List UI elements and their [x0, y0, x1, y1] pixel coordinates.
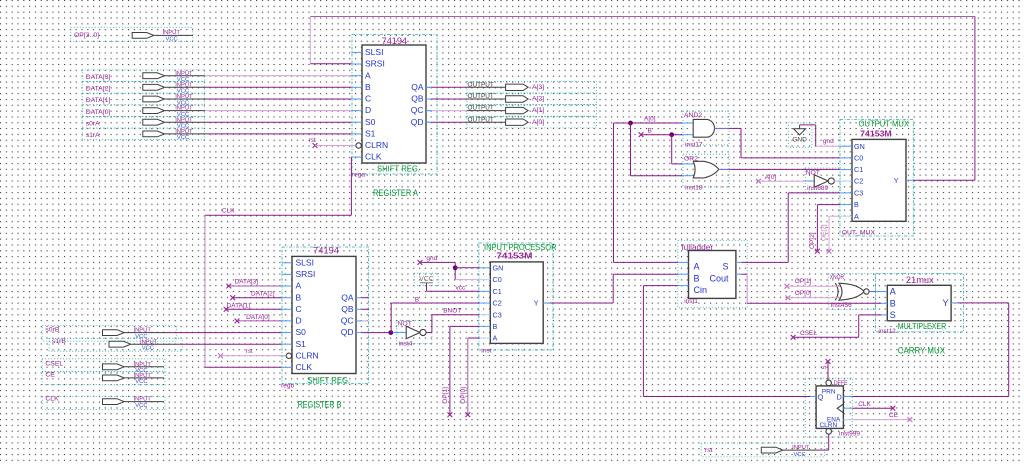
svg-text:Cin: Cin [694, 285, 708, 295]
svg-text:INPUT: INPUT [134, 362, 152, 368]
or-gate OR2 inst18 [683, 154, 729, 187]
svg-text:s1rA: s1rA [86, 132, 100, 139]
register A 74194 shift register [352, 35, 437, 175]
svg-text:INPUT: INPUT [792, 445, 810, 451]
wire feedback right vertical [974, 17, 976, 181]
wires register A outputs [426, 86, 432, 88]
svg-text:OP[0]: OP[0] [460, 387, 467, 404]
svg-text:CE: CE [45, 372, 55, 379]
net A[0] to AND2/OR2/fulladder [613, 123, 615, 262]
svg-text:s0rA: s0rA [86, 120, 100, 127]
svg-text:OUT_MUX: OUT_MUX [842, 229, 876, 236]
and-gate AND2 inst17 [683, 111, 729, 145]
svg-text:VCC: VCC [177, 135, 189, 141]
svg-text:REGISTER B: REGISTER B [298, 400, 342, 410]
svg-text:DATA[1]: DATA[1] [86, 97, 111, 104]
svg-text:S: S [890, 310, 896, 320]
svg-text:vcc: vcc [456, 285, 467, 292]
svg-text:DATA[1]: DATA[1] [227, 302, 251, 309]
svg-text:SRSI: SRSI [296, 269, 316, 279]
svg-text:inst: inst [481, 347, 491, 354]
svg-text:VCC: VCC [142, 346, 154, 352]
power symbol VCC [414, 273, 438, 285]
svg-text:CE: CE [889, 412, 899, 419]
input pin CE [42, 372, 165, 385]
svg-text:A: A [365, 70, 371, 80]
svg-text:VCC: VCC [166, 37, 178, 43]
svg-text:DATA[0]: DATA[0] [86, 109, 111, 116]
svg-text:NOT: NOT [806, 169, 820, 176]
net gnd to output-mux GN [800, 124, 816, 126]
wire input-processor Y to fulladder B [550, 302, 614, 304]
not-gate NOT inst4 [397, 320, 432, 343]
net CE dangle at DFFE [843, 419, 852, 421]
svg-text:INPUT: INPUT [175, 117, 193, 123]
svg-text:QC: QC [341, 316, 354, 326]
svg-text:MULTIPLEXER: MULTIPLEXER [898, 321, 946, 331]
svg-text:OP[3..0]: OP[3..0] [74, 32, 99, 39]
svg-text:C: C [365, 94, 371, 104]
svg-text:S1: S1 [296, 339, 307, 349]
svg-text:B: B [296, 292, 302, 302]
svg-text:Q: Q [818, 392, 824, 401]
svg-text:QD: QD [411, 117, 424, 127]
svg-text:CLRN: CLRN [819, 422, 837, 429]
svg-text:B: B [694, 273, 700, 283]
wire fulladder S up [742, 261, 789, 263]
svg-text:gnd: gnd [823, 138, 834, 145]
svg-text:XNOR: XNOR [830, 274, 844, 281]
svg-text:A[1]: A[1] [532, 107, 544, 114]
svg-text:A: A [296, 281, 302, 291]
wire OR2 output to output-mux C1 [719, 168, 730, 170]
svg-text:C3: C3 [493, 310, 502, 319]
net OP[1] to input-processor B [450, 325, 480, 327]
svg-text:CLRN: CLRN [365, 140, 388, 150]
svg-text:CLK: CLK [858, 401, 871, 408]
net CLK dangle at DFFE [843, 407, 852, 409]
svg-text:rega: rega [352, 171, 365, 178]
svg-text:DATA[2]: DATA[2] [251, 290, 275, 297]
wire A-net into fulladder A [614, 261, 678, 263]
flip-flop DFFE inst999 [805, 378, 852, 437]
svg-text:GND: GND [792, 137, 807, 144]
svg-text:C: C [296, 304, 302, 314]
svg-text:CSEL: CSEL [800, 330, 817, 337]
svg-text:Y: Y [942, 298, 948, 308]
svg-text:BNOT: BNOT [443, 308, 461, 315]
svg-text:OP[1]: OP[1] [442, 387, 449, 404]
svg-text:OUTPUT MUX: OUTPUT MUX [859, 119, 910, 129]
wire fulladder S to output-mux C3 [787, 193, 789, 263]
svg-text:21mux: 21mux [906, 275, 934, 285]
svg-text:AND2: AND2 [684, 112, 702, 119]
input pin CSEL [42, 359, 165, 372]
svg-text:S: S [722, 262, 728, 272]
svg-text:QB: QB [341, 304, 354, 314]
svg-text:GN: GN [493, 263, 504, 272]
not-gate NOT inst689 [805, 168, 840, 192]
svg-text:rst: rst [705, 447, 713, 454]
wire feedback top [310, 16, 975, 18]
svg-text:INPUT: INPUT [163, 30, 181, 36]
svg-text:VCC: VCC [135, 403, 147, 409]
svg-text:DATA[2]: DATA[2] [86, 86, 111, 93]
svg-text:INPUT: INPUT [134, 397, 152, 403]
svg-text:Y: Y [534, 299, 539, 308]
net vcc to input-processor C1 [426, 283, 428, 292]
svg-text:inst456: inst456 [831, 302, 852, 309]
svg-text:REGISTER A: REGISTER A [373, 188, 418, 198]
output pins A[3..0] [467, 81, 596, 93]
wire fulladder Cout to carry-mux B [742, 273, 748, 275]
svg-text:INPUT: INPUT [134, 328, 152, 334]
svg-text:SLSI: SLSI [365, 47, 383, 57]
input pins DATA[3..0] s0rA s1rA [82, 70, 204, 140]
wire DFFE Q to fulladder Cin [810, 396, 816, 398]
svg-text:inst999: inst999 [839, 431, 860, 438]
svg-text:CSEL: CSEL [45, 361, 63, 368]
multiplexer 21mux inst12 [875, 274, 963, 332]
xnor-gate XNOR inst456 [828, 274, 875, 310]
svg-text:QC: QC [411, 105, 424, 115]
svg-text:C1: C1 [493, 287, 502, 296]
svg-text:gnd: gnd [426, 255, 437, 262]
multiplexer INPUT PROCESSOR 74153M [479, 243, 553, 350]
svg-text:C3: C3 [854, 189, 863, 198]
svg-text:CLK: CLK [296, 362, 313, 372]
svg-text:A[0]: A[0] [765, 174, 777, 181]
net OP[0] to input-processor A [468, 337, 480, 339]
svg-text:Cout: Cout [709, 273, 729, 283]
svg-text:DATA[3]: DATA[3] [235, 279, 259, 286]
svg-text:DATA[3]: DATA[3] [86, 74, 111, 81]
svg-text:B: B [493, 322, 498, 331]
svg-text:B: B [890, 298, 896, 308]
svg-text:SLSI: SLSI [296, 257, 314, 267]
svg-text:B: B [854, 200, 859, 209]
svg-text:CLK: CLK [45, 395, 59, 402]
svg-text:SRSI: SRSI [365, 59, 385, 69]
svg-text:A[3]: A[3] [532, 84, 544, 91]
svg-text:INPUT: INPUT [175, 94, 193, 100]
svg-text:DATA[0]: DATA[0] [246, 314, 270, 321]
svg-text:QD: QD [341, 327, 354, 337]
svg-text:inst1: inst1 [684, 298, 698, 305]
svg-text:SHIFT REG.: SHIFT REG. [377, 163, 420, 173]
svg-text:QA: QA [341, 292, 354, 302]
svg-text:C2: C2 [854, 177, 863, 186]
svg-text:C1: C1 [854, 165, 863, 174]
wire carry-mux Y to DFFE D [957, 302, 1008, 304]
svg-text:CLRN: CLRN [296, 350, 319, 360]
multiplexer OUTPUT MUX 74153M [840, 120, 913, 237]
svg-text:QB: QB [411, 94, 424, 104]
svg-text:74153M: 74153M [496, 252, 532, 261]
svg-text:VCC: VCC [135, 379, 147, 385]
svg-text:D: D [296, 316, 302, 326]
fulladder inst1 [678, 241, 747, 308]
svg-text:regb: regb [281, 382, 294, 389]
svg-text:74194: 74194 [313, 246, 339, 256]
svg-text:INPUT: INPUT [175, 82, 193, 88]
svg-text:NOT: NOT [398, 321, 412, 328]
svg-text:QA: QA [411, 82, 424, 92]
svg-text:B: B [648, 127, 652, 134]
svg-text:74153M: 74153M [860, 129, 892, 138]
svg-text:C0: C0 [854, 154, 863, 163]
wire XNOR to carry-mux A [869, 291, 876, 293]
input pin s0rB [42, 325, 176, 341]
svg-text:Y: Y [894, 176, 899, 185]
wire s0rB to register B S0 [168, 332, 282, 334]
svg-text:s1rB: s1rB [52, 338, 66, 345]
svg-text:inst12: inst12 [878, 328, 896, 335]
svg-text:S0: S0 [365, 117, 376, 127]
svg-text:SHIFT REG.: SHIFT REG. [307, 375, 350, 385]
svg-text:inst17: inst17 [685, 141, 703, 148]
wire rst to DFFE CLRN [816, 449, 829, 451]
svg-text:A[2]: A[2] [532, 96, 544, 103]
svg-text:A: A [890, 287, 896, 297]
svg-text:GN: GN [854, 142, 865, 151]
svg-text:INPUT: INPUT [134, 373, 152, 379]
svg-text:A: A [694, 262, 700, 272]
svg-text:B: B [365, 82, 371, 92]
svg-text:INPUT: INPUT [140, 339, 158, 345]
svg-text:S1: S1 [365, 129, 376, 139]
svg-text:s0rB: s0rB [45, 326, 59, 333]
svg-text:INPUT: INPUT [175, 71, 193, 77]
svg-text:S0: S0 [296, 327, 307, 337]
svg-text:VCC: VCC [794, 452, 806, 458]
net OE[2] to output-mux A [829, 215, 840, 217]
input pin s1rB [49, 338, 182, 351]
ground symbol GND [788, 123, 812, 147]
svg-text:C2: C2 [493, 299, 502, 308]
wire feedback left vertical [309, 17, 311, 64]
svg-text:OP[1]: OP[1] [795, 278, 812, 285]
svg-text:OP[2]: OP[2] [809, 232, 816, 249]
net B from register B QD to input-processor C2 [388, 330, 393, 335]
svg-text:A: A [493, 334, 498, 343]
register B 74194 shift register [282, 247, 369, 384]
svg-text:OE[2]: OE[2] [820, 224, 827, 241]
wire AND2 output to output-mux C0 [714, 127, 729, 129]
wires DATA rows to register A [205, 75, 352, 77]
svg-text:PRN: PRN [822, 389, 836, 396]
svg-text:S: S [822, 365, 828, 369]
svg-text:A: A [854, 212, 859, 221]
wire DFFE D stub [843, 396, 852, 398]
svg-text:VCC: VCC [419, 276, 434, 283]
input pin rst [701, 443, 824, 457]
svg-text:INPUT PROCESSOR: INPUT PROCESSOR [484, 242, 557, 252]
svg-text:A[0]: A[0] [644, 115, 656, 122]
net S to DFFE PRN [827, 361, 829, 380]
svg-text:rst: rst [246, 349, 253, 355]
svg-text:CARRY MUX: CARRY MUX [898, 346, 945, 356]
input pin OP[3..0] [71, 27, 193, 41]
svg-text:B: B [415, 296, 419, 303]
svg-text:CLK: CLK [365, 152, 382, 162]
svg-text:inst4: inst4 [399, 340, 413, 347]
wire s1rB to register B S1 [178, 343, 282, 345]
svg-text:A[0]: A[0] [532, 119, 544, 126]
svg-text:INPUT: INPUT [175, 129, 193, 135]
svg-text:CLK: CLK [222, 208, 235, 215]
svg-text:D: D [365, 105, 371, 115]
input pin CLK [42, 397, 165, 410]
wire feedback to SRSI [310, 63, 351, 65]
svg-text:inst18: inst18 [685, 184, 703, 191]
svg-text:INPUT: INPUT [175, 106, 193, 112]
net BNOT to input-processor C3 [426, 332, 432, 334]
svg-text:OP[0]: OP[0] [795, 290, 812, 297]
wire outputmux Y [913, 179, 975, 181]
svg-text:C0: C0 [493, 275, 502, 284]
svg-text:D: D [836, 392, 842, 401]
net OP[2] to output-mux B [817, 204, 840, 206]
